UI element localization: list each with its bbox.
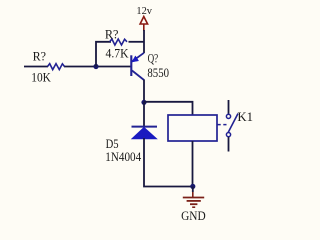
svg-text:R?: R? <box>33 50 47 64</box>
contact top terminal circle <box>226 114 230 118</box>
svg-text:12v: 12v <box>136 6 152 17</box>
contact top stub wire <box>228 100 230 114</box>
svg-text:GND: GND <box>181 209 206 223</box>
resistor R2 4.7K <box>110 39 127 45</box>
wire 4.7K left branch <box>96 42 111 67</box>
wire 4.7K right lead to 12v rail <box>129 41 145 43</box>
relay K1 contact dashed link <box>218 124 227 126</box>
emitter arrow (points to base) <box>132 56 139 62</box>
wire ground stem <box>192 187 194 193</box>
transistor Q1 8550 PNP <box>131 53 144 80</box>
wire base rail left <box>24 66 131 68</box>
relay K1 contact <box>226 100 238 152</box>
node base junction dot <box>93 64 98 69</box>
wire diode upper lead <box>143 102 145 127</box>
wire collector down <box>143 80 145 104</box>
collector segment <box>132 71 144 81</box>
power +12v symbol <box>140 17 148 32</box>
contact movable arm <box>228 114 238 133</box>
svg-text:8550: 8550 <box>147 66 169 80</box>
emitter segment <box>132 53 144 62</box>
svg-text:Q?: Q? <box>148 52 159 66</box>
wire diode lower lead to bottom rail <box>144 138 193 187</box>
svg-text:K1: K1 <box>237 110 253 124</box>
resistor R1 10K <box>48 64 65 70</box>
contact bottom terminal circle <box>226 133 230 137</box>
relay K1 coil box <box>168 115 217 141</box>
wire relay coil bottom pin <box>192 141 194 187</box>
ground symbol <box>183 192 204 207</box>
diode D5 1N4004 <box>132 127 158 139</box>
base bar <box>130 55 132 76</box>
wire collector to relay coil top <box>144 102 193 116</box>
contact bottom stub wire <box>228 137 230 152</box>
svg-text:D5: D5 <box>106 137 119 151</box>
svg-text:10K: 10K <box>31 71 51 85</box>
svg-text:R?: R? <box>105 27 119 41</box>
node ground junction dot <box>190 184 195 189</box>
svg-text:4.7K: 4.7K <box>106 47 129 61</box>
svg-text:1N4004: 1N4004 <box>105 150 142 164</box>
node collector junction dot <box>141 100 146 105</box>
wire 12v down to emitter <box>143 30 145 53</box>
